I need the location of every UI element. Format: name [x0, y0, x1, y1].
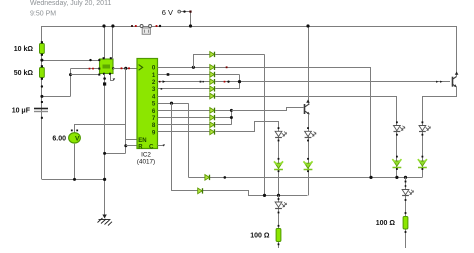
svg-text:7: 7 [152, 115, 156, 122]
svg-text:C: C [149, 143, 154, 150]
svg-text:50 kΩ: 50 kΩ [14, 70, 34, 77]
svg-text:10 kΩ: 10 kΩ [14, 46, 34, 53]
svg-text:1: 1 [152, 72, 156, 79]
svg-text:V: V [75, 136, 80, 143]
svg-text:9:50 PM: 9:50 PM [30, 11, 56, 18]
svg-text:(4017): (4017) [137, 159, 155, 166]
svg-text:5: 5 [152, 101, 156, 108]
svg-text:4: 4 [152, 93, 156, 100]
svg-text:10 μF: 10 μF [12, 108, 31, 115]
svg-text:R: R [138, 144, 143, 150]
svg-text:6 V: 6 V [162, 8, 173, 17]
svg-text:IC2: IC2 [141, 152, 151, 159]
svg-text:3: 3 [152, 86, 156, 93]
svg-text:100 Ω: 100 Ω [376, 220, 396, 227]
svg-text:0: 0 [152, 65, 156, 72]
svg-text:6.00: 6.00 [52, 136, 66, 143]
svg-text:2: 2 [152, 79, 156, 86]
svg-text:8: 8 [152, 122, 156, 129]
svg-text:EN: EN [138, 138, 146, 144]
svg-text:Wednesday, July 20, 2011: Wednesday, July 20, 2011 [30, 0, 111, 7]
svg-text:100 Ω: 100 Ω [250, 233, 270, 240]
svg-text:6: 6 [152, 108, 156, 115]
svg-text:9: 9 [152, 129, 156, 136]
